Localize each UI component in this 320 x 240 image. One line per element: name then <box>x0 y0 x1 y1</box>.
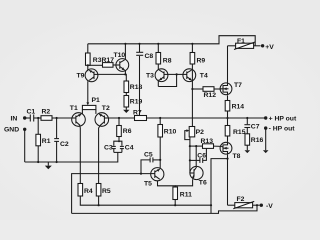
resistor R16 <box>245 128 263 151</box>
svg-text:P1: P1 <box>92 97 101 104</box>
transistor T1 <box>70 105 85 126</box>
wire outer return rail <box>72 205 257 213</box>
wire C3/C4 rejoin <box>114 151 122 153</box>
capacitor C4 <box>120 145 134 153</box>
svg-text:R16: R16 <box>251 137 264 144</box>
transistor T6 <box>190 166 207 186</box>
wire T3 mirror loop <box>158 74 176 86</box>
wire R18-R19 <box>125 93 127 96</box>
svg-text:R18: R18 <box>130 84 143 91</box>
svg-text:T8: T8 <box>233 153 241 160</box>
svg-text:R10: R10 <box>164 128 177 135</box>
transistor T7 (MOSFET) <box>220 82 242 95</box>
resistor R18 <box>124 81 142 93</box>
transistor T8 (MOSFET) <box>220 142 241 160</box>
node -HP out terminal <box>264 126 295 133</box>
svg-text:R7: R7 <box>133 110 142 117</box>
svg-text:C6: C6 <box>197 152 206 159</box>
wire T5/T6 emitters to R11 <box>158 181 176 187</box>
wire T6 collector up to gate node <box>195 146 197 166</box>
resistor R10 <box>158 118 177 137</box>
wire T9 base to R18 <box>98 74 126 81</box>
node R3/R17/T9 junction <box>87 64 89 66</box>
svg-text:R11: R11 <box>180 191 192 198</box>
resistor R17 <box>102 57 117 67</box>
svg-text:IN: IN <box>11 115 18 122</box>
svg-text:R15: R15 <box>233 129 246 136</box>
transistor T10 <box>114 43 129 76</box>
node IN terminal <box>11 115 27 122</box>
resistor R6 <box>117 118 132 137</box>
node output to C7 <box>246 117 248 119</box>
svg-text:- HP out: - HP out <box>269 126 296 133</box>
resistor R2 <box>41 109 72 121</box>
resistor R13 <box>190 138 222 148</box>
svg-text:GND: GND <box>4 127 19 134</box>
wire GND down to ground rail <box>24 129 26 162</box>
wire T3-T4 base link <box>168 73 183 75</box>
fuse F2 <box>228 196 260 209</box>
svg-text:F2: F2 <box>237 196 245 203</box>
wire -HP to ground <box>265 128 267 150</box>
resistor R9 <box>190 43 205 65</box>
svg-text:C4: C4 <box>125 145 134 152</box>
resistor R8 <box>156 43 172 65</box>
wire T8 source down to fuse line <box>227 155 229 206</box>
resistor R15 <box>225 117 245 142</box>
svg-text:T6: T6 <box>199 180 207 187</box>
capacitor C3 <box>104 145 116 153</box>
wire T7 drain from fuse line <box>227 46 229 83</box>
trimmer P1 <box>82 82 100 110</box>
svg-text:T2: T2 <box>102 105 110 112</box>
resistor R14 <box>225 95 244 118</box>
resistor R7 <box>133 110 147 121</box>
transistor T4 <box>183 64 208 126</box>
wire P1 ends to T1/T2 emitters <box>81 110 83 114</box>
wire P2 bottom to R13 corner and T6 base <box>189 137 191 173</box>
transistor T2 <box>95 105 110 126</box>
ground below -HP <box>263 150 269 153</box>
resistor R12 <box>192 87 221 99</box>
capacitor C1 <box>25 109 41 122</box>
svg-text:F1: F1 <box>237 38 245 45</box>
wire C8 column down to R7 <box>139 56 141 116</box>
wire R10 to T5 collector <box>159 137 161 168</box>
capacitor C7 <box>244 118 259 130</box>
transistor T9 <box>77 69 98 82</box>
svg-text:C3: C3 <box>104 145 113 152</box>
node R6 junction <box>118 117 120 119</box>
svg-text:+V: +V <box>265 44 274 51</box>
capacitor C8 <box>136 43 153 60</box>
node R1 junction <box>37 117 39 119</box>
svg-text:R1: R1 <box>42 138 51 145</box>
svg-text:T9: T9 <box>77 73 85 80</box>
svg-text:T7: T7 <box>234 82 242 89</box>
ground below R16 <box>245 150 251 153</box>
svg-text:C2: C2 <box>60 141 69 148</box>
node -V terminal <box>260 203 274 210</box>
capacitor C6 <box>190 148 207 163</box>
resistor R1 <box>36 118 51 162</box>
svg-text:C7: C7 <box>251 123 260 130</box>
svg-text:R13: R13 <box>201 138 214 145</box>
node R12 junction <box>191 88 193 90</box>
svg-text:T4: T4 <box>200 73 208 80</box>
svg-text:R9: R9 <box>197 58 206 65</box>
resistor R5 <box>96 184 111 207</box>
node R10 top <box>159 117 161 119</box>
svg-text:T5: T5 <box>144 181 152 188</box>
svg-text:+ HP out: + HP out <box>269 116 297 123</box>
svg-text:T10: T10 <box>114 52 126 59</box>
svg-text:R17: R17 <box>102 57 115 64</box>
fuse F1 <box>228 38 261 50</box>
svg-text:R5: R5 <box>102 188 111 195</box>
svg-text:R14: R14 <box>232 104 245 111</box>
resistor R3 <box>86 44 102 66</box>
wire T5 base feedback line <box>72 174 151 214</box>
wire T1 collector to R4 <box>79 125 82 183</box>
resistor R19 <box>124 96 142 108</box>
node +V terminal <box>261 44 274 51</box>
svg-text:R6: R6 <box>123 128 132 135</box>
wire T2 collector to R5 <box>99 125 101 183</box>
svg-text:R8: R8 <box>163 58 172 65</box>
wire C3/C4 to input ground rail <box>25 152 118 162</box>
svg-text:T3: T3 <box>146 73 154 80</box>
wire output sense branch <box>211 159 228 214</box>
ground on input rail <box>45 162 52 169</box>
wire R3/T9/R17 node <box>87 65 89 69</box>
svg-text:P2: P2 <box>196 129 205 136</box>
capacitor C3 and C4 bracket <box>114 137 119 146</box>
transistor T5 <box>144 168 164 188</box>
svg-text:R4: R4 <box>84 188 93 195</box>
capacitor C5 <box>140 151 161 174</box>
ground below R19 <box>123 107 129 113</box>
svg-text:R3: R3 <box>93 57 102 64</box>
svg-text:-V: -V <box>266 203 273 210</box>
svg-text:C8: C8 <box>145 53 154 60</box>
node +HP out terminal <box>264 116 297 123</box>
node C2 junction <box>56 117 58 119</box>
wire top supply rail with jog <box>88 36 255 46</box>
wire inner -V rail <box>80 196 211 205</box>
transistor T3 <box>146 64 168 87</box>
svg-text:R19: R19 <box>130 99 143 106</box>
svg-text:R12: R12 <box>204 92 217 99</box>
wire output line <box>109 117 266 119</box>
capacitor C2 <box>54 118 69 162</box>
trimmer P2 <box>185 127 204 140</box>
node inner rail junction <box>210 204 212 206</box>
svg-text:R2: R2 <box>42 109 51 116</box>
resistor R4 <box>78 184 93 197</box>
svg-text:T1: T1 <box>70 105 78 112</box>
svg-text:C1: C1 <box>27 109 36 116</box>
svg-text:C5: C5 <box>144 151 153 158</box>
node GND terminal <box>4 127 26 134</box>
resistor R11 <box>173 187 192 206</box>
